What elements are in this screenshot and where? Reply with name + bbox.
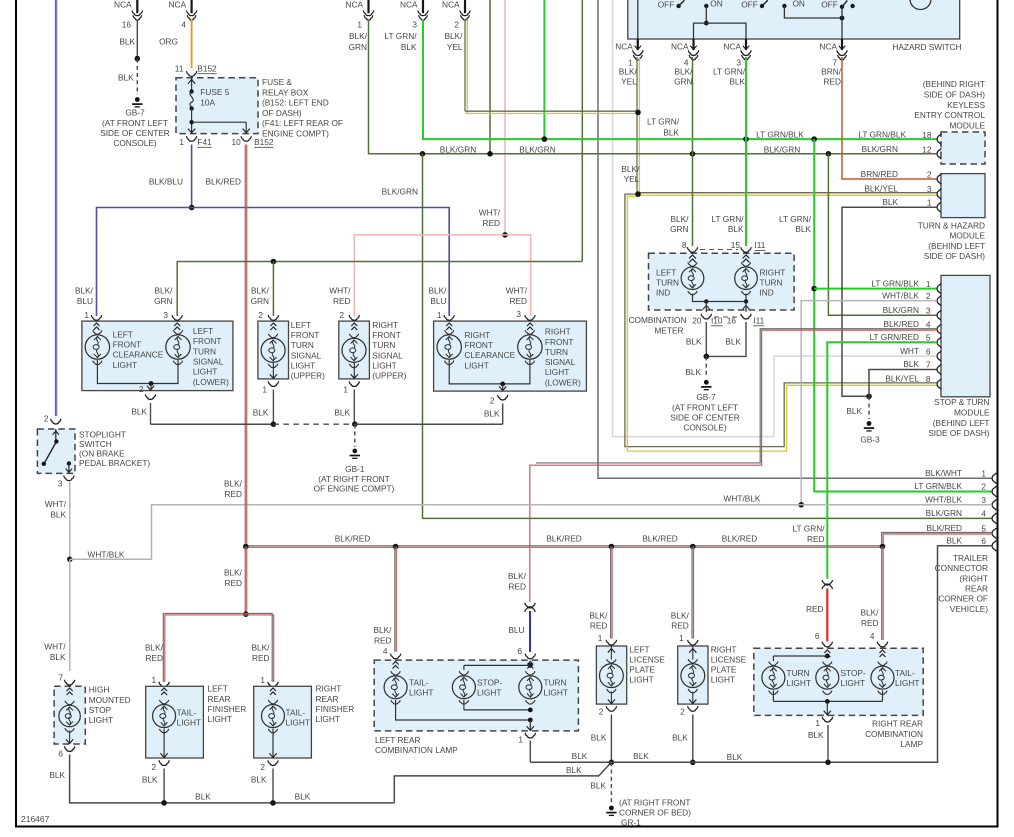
fuse and relay box <box>176 78 258 134</box>
stop and turn module box <box>941 275 990 396</box>
wire fuse input <box>191 78 193 91</box>
svg-text:LIGHT: LIGHT <box>316 714 340 724</box>
svg-text:6: 6 <box>517 646 522 656</box>
wire LT GRN/BLK to stop and turn pin 1 <box>814 288 937 290</box>
right rear finisher light box <box>254 686 312 758</box>
wire BLK right license plate light to rear bus <box>692 715 694 763</box>
svg-text:BLK: BLK <box>633 751 649 761</box>
connector left rear lamp pin 1 <box>525 733 535 738</box>
svg-text:BLK/: BLK/ <box>349 31 368 41</box>
svg-text:BLK/: BLK/ <box>429 286 448 296</box>
wire BLK/GRN feeder from top at x490 <box>489 0 491 154</box>
svg-text:BLK/GRN: BLK/GRN <box>519 144 555 154</box>
lamp RIGHT TURN IND <box>743 255 750 262</box>
junction dot WHT/BLK x801 <box>798 502 804 508</box>
svg-text:TAIL-: TAIL- <box>286 707 306 717</box>
svg-text:TURN & HAZARD: TURN & HAZARD <box>918 220 985 230</box>
svg-text:BLK: BLK <box>572 751 588 761</box>
svg-text:RIGHT: RIGHT <box>464 330 490 340</box>
wire high mounted stop exit <box>69 731 71 745</box>
connector trailer pin 2 <box>992 486 996 497</box>
svg-text:LIGHT: LIGHT <box>113 360 137 370</box>
svg-text:BLK: BLK <box>295 791 311 801</box>
svg-text:TURN: TURN <box>291 340 314 350</box>
svg-text:BLK/RED: BLK/RED <box>642 533 678 543</box>
svg-text:BLK: BLK <box>686 336 702 346</box>
connector left front lamp pin 2 <box>145 394 155 399</box>
svg-text:RELAY BOX: RELAY BOX <box>262 87 309 97</box>
connector left front lamp pin 1 <box>91 315 101 320</box>
svg-text:BLK: BLK <box>685 367 701 377</box>
svg-text:LT GRN/: LT GRN/ <box>385 31 418 41</box>
svg-text:OFF: OFF <box>658 0 675 10</box>
svg-text:2: 2 <box>151 762 156 772</box>
arrow exit left rear lamp pin 1 <box>529 720 531 731</box>
svg-text:GRN: GRN <box>154 296 172 306</box>
svg-text:YEL: YEL <box>624 174 640 184</box>
wire NCA pin 16 stub <box>136 0 138 13</box>
arrow meter exit pin 20 <box>705 302 707 313</box>
svg-text:(BEHIND LEFT: (BEHIND LEFT <box>933 418 990 428</box>
svg-text:BLK: BLK <box>727 752 743 762</box>
wire BLK left rear finisher light to bottom bus <box>163 769 165 803</box>
svg-text:RED: RED <box>590 621 608 631</box>
svg-text:ON: ON <box>710 0 722 9</box>
svg-text:MODULE: MODULE <box>950 121 986 131</box>
svg-text:TAIL-: TAIL- <box>895 668 915 678</box>
wire BLK/RED to right license plate light <box>691 547 693 639</box>
wire LT GRN/BLK NCA 3 to keyless module pin 18 <box>423 20 937 140</box>
junction dot BLK/RED finisher split <box>243 611 249 617</box>
wire BLK/GRN down to stop and turn pin 3 <box>828 154 937 315</box>
svg-text:COMBINATION: COMBINATION <box>865 729 923 739</box>
svg-text:BLK: BLK <box>903 359 919 369</box>
connector stoplight switch pin 3 <box>64 476 74 481</box>
lamp RIGHT FRONT TURN SIGNAL LIGHT LOWER <box>527 323 533 330</box>
svg-text:MODULE: MODULE <box>954 407 990 417</box>
connector right license plate light pin 2 <box>688 706 698 711</box>
wire LT GRN/BLK feeder from top at x544 <box>543 0 545 139</box>
svg-text:GRN: GRN <box>674 77 692 87</box>
svg-text:BLK/: BLK/ <box>619 67 638 77</box>
junction dot ground bus x273 <box>271 421 277 427</box>
svg-text:1: 1 <box>815 718 820 728</box>
lamp right rear TAIL-LIGHT <box>880 650 886 657</box>
turn and hazard module box <box>941 174 985 218</box>
wire right rear lamp bottom bus <box>772 691 774 702</box>
svg-text:BLK/: BLK/ <box>861 608 880 618</box>
junction dot BLK/RED bus <box>243 544 249 550</box>
svg-text:TURN: TURN <box>760 278 783 288</box>
wire BLK/WHT from top to trailer pin 1 <box>598 0 992 478</box>
svg-text:WHT/: WHT/ <box>329 286 351 296</box>
svg-text:WHT/BLK: WHT/BLK <box>88 549 125 559</box>
svg-text:RED: RED <box>508 582 526 592</box>
connector keyless pin 12 <box>937 148 941 159</box>
svg-text:WHT/: WHT/ <box>479 208 501 218</box>
wire BLU to left rear lamp pin 6 <box>529 611 531 652</box>
wire BLK/RED stop-turn pin 4 to turn light feed <box>530 330 937 602</box>
left front clearance and turn signal lamp box <box>82 321 233 391</box>
svg-text:10A: 10A <box>200 97 215 107</box>
junction dot meter lamp bus <box>704 299 708 303</box>
svg-text:WHT/BLK: WHT/BLK <box>724 493 761 503</box>
svg-text:FINISHER: FINISHER <box>208 704 247 714</box>
svg-text:RED: RED <box>224 489 242 499</box>
junction dot BLK/GRN x828 <box>826 151 832 157</box>
svg-text:NCA: NCA <box>114 0 132 10</box>
lamp left rear STOP-LIGHT <box>452 676 475 699</box>
svg-text:SIGNAL: SIGNAL <box>193 356 224 366</box>
svg-text:(ON BRAKE: (ON BRAKE <box>79 449 125 459</box>
wire WHT from top to stop and turn module pin 6 <box>613 0 938 437</box>
svg-text:BLK: BLK <box>728 224 744 234</box>
svg-text:BLK/: BLK/ <box>445 31 464 41</box>
svg-text:NCA: NCA <box>169 0 187 10</box>
wire NCA pin 3 stub <box>422 0 424 13</box>
wire WHT/RED feeder junction <box>502 232 508 238</box>
svg-text:RED: RED <box>482 218 500 228</box>
svg-text:WHT/: WHT/ <box>44 642 66 652</box>
svg-text:3: 3 <box>926 306 931 316</box>
connector stop-turn pin 2 <box>937 295 941 306</box>
svg-text:YEL: YEL <box>447 42 463 52</box>
svg-text:2: 2 <box>981 482 986 492</box>
lamp right rear TURN LIGHT <box>762 666 785 689</box>
svg-text:GB-7: GB-7 <box>125 108 145 118</box>
svg-text:1: 1 <box>84 310 89 320</box>
wire WHT/BLK stop-turn pin 2 <box>801 301 937 505</box>
svg-text:OFF: OFF <box>821 0 838 10</box>
svg-text:BLU: BLU <box>430 296 446 306</box>
lamp RIGHT FRONT CLEARANCE LIGHT <box>446 323 452 330</box>
hazard switch box <box>628 0 960 39</box>
svg-text:RED: RED <box>224 578 242 588</box>
svg-text:LIGHT: LIGHT <box>291 360 315 370</box>
wire BLK/GRN front turn signals to top feeder <box>177 262 582 317</box>
svg-text:STOPLIGHT: STOPLIGHT <box>79 429 126 439</box>
wire BLK turn-hazard pin 1 to stop-turn pin 7 and ground GB-3 <box>842 207 937 396</box>
svg-text:FRONT: FRONT <box>545 337 574 347</box>
svg-text:LEFT: LEFT <box>656 267 676 277</box>
wire left rear lamp bottom bus <box>463 700 465 710</box>
junction dot BLK/RED bus <box>393 544 399 550</box>
svg-text:BLK: BLK <box>50 652 66 662</box>
hazard switch spare contact dot <box>850 4 854 8</box>
svg-text:11: 11 <box>175 63 184 73</box>
svg-text:16: 16 <box>122 20 132 30</box>
svg-text:1: 1 <box>598 633 603 643</box>
svg-text:GB-1: GB-1 <box>345 464 365 474</box>
junction dot BLK/BLU <box>189 205 195 211</box>
svg-text:2: 2 <box>680 707 685 717</box>
svg-text:RED: RED <box>806 604 824 614</box>
svg-text:IND: IND <box>760 288 774 298</box>
wire BLK/RED fuse B152-10 down to rear light bus <box>244 145 246 547</box>
wire BLK/RED to rear finisher lights <box>244 547 246 614</box>
wire BLK/RED trailer to right rear lamp pin 4 <box>881 547 883 641</box>
lamp left license plate light <box>610 646 612 660</box>
wire BLK stop-turn pin 7 <box>869 370 937 397</box>
svg-text:BLK/: BLK/ <box>671 610 690 620</box>
svg-text:BLK/RED: BLK/RED <box>926 523 962 533</box>
svg-text:BLK: BLK <box>401 42 417 52</box>
svg-text:PLATE: PLATE <box>629 665 655 675</box>
svg-text:BLK: BLK <box>195 791 211 801</box>
svg-text:LT GRN/BLK: LT GRN/BLK <box>914 481 962 491</box>
svg-text:RED: RED <box>333 296 351 306</box>
wire right front lamps internal bus <box>449 360 530 384</box>
wire right rear lamp pin 6 internal <box>825 654 830 659</box>
wire BLK/GRN down to trailer pin 4 <box>423 154 993 519</box>
svg-text:BLK/GRN: BLK/GRN <box>883 305 919 315</box>
svg-text:2: 2 <box>339 310 344 320</box>
svg-text:(RIGHT: (RIGHT <box>959 573 988 583</box>
connector B152 pin 10 <box>241 136 251 141</box>
svg-text:RED: RED <box>374 636 392 646</box>
svg-text:BLK/: BLK/ <box>671 214 690 224</box>
svg-text:BLK/BLU: BLK/BLU <box>149 177 183 187</box>
svg-text:SIDE OF DASH): SIDE OF DASH) <box>924 89 986 99</box>
connector right rear finisher light pin 1 <box>268 682 278 687</box>
wire BLK dashed ground bus <box>273 423 354 425</box>
svg-text:7: 7 <box>58 673 63 683</box>
svg-text:BLK: BLK <box>131 407 147 417</box>
svg-text:BLK: BLK <box>142 774 158 784</box>
svg-text:LT GRN/: LT GRN/ <box>712 214 745 224</box>
arrow exit right front lamp pin 2 <box>499 386 506 390</box>
svg-text:BLK: BLK <box>253 408 269 418</box>
svg-text:BLK/RED: BLK/RED <box>722 533 758 543</box>
svg-text:FRONT: FRONT <box>464 340 493 350</box>
connector keyless pin 18 <box>937 134 941 145</box>
wire BLK meter pin 16 to junction <box>706 322 746 356</box>
svg-text:STOP-: STOP- <box>841 668 866 678</box>
svg-text:(BEHIND RIGHT: (BEHIND RIGHT <box>923 79 985 89</box>
connector row dashes meter top <box>700 249 738 251</box>
connector trailer pin 6 <box>992 540 996 551</box>
junction dot LT GRN/BLK x814 <box>811 136 817 142</box>
svg-text:OF ENGINE COMPT): OF ENGINE COMPT) <box>314 484 395 494</box>
svg-text:18: 18 <box>922 130 932 140</box>
wire BLK right rear lamp to bus <box>827 725 829 762</box>
svg-text:(UPPER): (UPPER) <box>291 371 325 381</box>
svg-text:LT GRN/: LT GRN/ <box>793 524 826 534</box>
svg-text:HIGH: HIGH <box>89 685 110 695</box>
svg-text:RIGHT: RIGHT <box>760 267 786 277</box>
svg-text:BLK: BLK <box>484 409 500 419</box>
svg-text:BLK/: BLK/ <box>252 643 271 653</box>
connector meter pin 16 I11 <box>741 314 751 319</box>
svg-text:3: 3 <box>412 20 417 30</box>
lamp right rear finisher light TAIL-LIGHT <box>270 688 276 695</box>
svg-text:COMBINATION: COMBINATION <box>629 315 687 325</box>
wire left rear finisher light to pin 2 <box>163 729 165 759</box>
wire LT GRN/BLK hazard pin 3 to combination meter pin 15 <box>745 57 747 246</box>
svg-text:SIDE OF CENTER: SIDE OF CENTER <box>100 128 170 138</box>
svg-text:(B152: LEFT END: (B152: LEFT END <box>262 98 329 108</box>
svg-text:LT GRN/: LT GRN/ <box>647 117 680 127</box>
lamp RIGHT FRONT TURN SIGNAL LIGHT UPPER <box>351 323 357 330</box>
svg-text:GB-3: GB-3 <box>860 435 880 445</box>
svg-text:(AT FRONT LEFT: (AT FRONT LEFT <box>672 402 738 412</box>
svg-text:BLK: BLK <box>566 765 582 775</box>
svg-text:I11: I11 <box>754 240 765 250</box>
wire BLK/YEL hazard pin 1 to turn-hazard module pin 3 and stop-turn pin 8 <box>625 57 937 447</box>
svg-text:RED: RED <box>252 653 270 663</box>
svg-text:LT GRN/RED: LT GRN/RED <box>870 332 919 342</box>
svg-text:FUSE &: FUSE & <box>262 77 292 87</box>
svg-text:LT GRN/BLK: LT GRN/BLK <box>871 278 919 288</box>
connector left front lamp pin 3 <box>172 315 182 320</box>
svg-text:BLK: BLK <box>251 774 267 784</box>
svg-text:BRN/: BRN/ <box>821 67 842 77</box>
wire BRN/RED hazard pin 7 to turn-hazard module pin 2 <box>842 57 937 179</box>
svg-text:CONSOLE): CONSOLE) <box>113 138 157 148</box>
svg-text:LT GRN/: LT GRN/ <box>713 67 746 77</box>
svg-text:F41: F41 <box>197 137 212 147</box>
junction dot BLK/RED bus <box>880 544 886 550</box>
svg-text:B152: B152 <box>254 137 274 147</box>
wire BLK dashed to GB-7 <box>136 59 138 95</box>
svg-text:BLK: BLK <box>49 770 65 780</box>
svg-text:NCA: NCA <box>615 42 633 52</box>
lamp LEFT FRONT CLEARANCE LIGHT <box>94 323 100 330</box>
svg-text:REAR: REAR <box>208 694 231 704</box>
inline connector LT GRN/RED to RED <box>822 580 832 585</box>
svg-text:LIGHT: LIGHT <box>544 688 568 698</box>
svg-text:8: 8 <box>682 240 687 250</box>
wire BLK/BLU fuse F41-1 to front clearance lights <box>191 145 193 208</box>
svg-text:TURN: TURN <box>656 278 679 288</box>
svg-text:LIGHT: LIGHT <box>787 678 811 688</box>
wire WHT/BLK to high mounted stop light <box>69 559 71 671</box>
svg-text:BLK: BLK <box>663 128 679 138</box>
svg-text:ENTRY CONTROL: ENTRY CONTROL <box>914 110 985 120</box>
wire left front lamps internal bus <box>97 360 178 384</box>
svg-text:10: 10 <box>231 137 241 147</box>
wire WHT/RED to front turn signal upper and lower <box>354 235 530 316</box>
ground GB-3 <box>867 421 872 426</box>
svg-text:LEFT: LEFT <box>113 329 133 339</box>
svg-text:RIGHT: RIGHT <box>711 644 737 654</box>
fuse F5 10A element <box>189 89 193 93</box>
connector NCA pin 16 <box>132 11 142 16</box>
wire BLK high mounted stop to bottom bus <box>70 755 395 803</box>
wire NCA pin 4 stub <box>191 0 193 13</box>
svg-text:TURN: TURN <box>545 347 568 357</box>
connector NCA pin 1 <box>363 11 373 16</box>
svg-text:LT GRN/: LT GRN/ <box>779 214 812 224</box>
svg-text:CONSOLE): CONSOLE) <box>683 423 727 433</box>
left rear finisher light box <box>146 686 204 758</box>
svg-text:GR-1: GR-1 <box>621 817 641 827</box>
lamp left rear TURN LIGHT <box>527 662 533 669</box>
ground GR-1 <box>609 806 614 811</box>
hazard switch wire ON2 to pin 7 <box>784 6 842 18</box>
svg-text:COMBINATION LAMP: COMBINATION LAMP <box>375 745 458 755</box>
connector turn-hazard pin 2 <box>937 174 941 185</box>
svg-text:BLK/: BLK/ <box>224 479 243 489</box>
connector high mounted stop pin 7 <box>64 680 74 685</box>
connector right front lamp pin 2 <box>498 395 508 400</box>
svg-text:TURN: TURN <box>193 346 216 356</box>
junction dot BLK/RED bus <box>609 544 615 550</box>
svg-text:RED: RED <box>671 621 689 631</box>
wire BLK gray partner of stop-turn pin 4 <box>536 329 937 463</box>
svg-text:TRAILER: TRAILER <box>953 553 988 563</box>
junction dot bottom bus <box>161 800 167 806</box>
svg-text:WHT/: WHT/ <box>45 499 67 509</box>
svg-text:3: 3 <box>163 310 168 320</box>
svg-text:LT GRN/BLK: LT GRN/BLK <box>858 129 906 139</box>
svg-text:6: 6 <box>981 536 986 546</box>
connector stop-turn pin 1 <box>937 283 941 294</box>
svg-text:BLK/: BLK/ <box>224 568 243 578</box>
combination meter box <box>649 253 795 310</box>
svg-text:LIGHT: LIGHT <box>208 714 232 724</box>
svg-text:12: 12 <box>922 145 932 155</box>
wire NCA pin 2 stub <box>464 0 466 13</box>
svg-text:1: 1 <box>981 468 986 478</box>
svg-text:GRN: GRN <box>670 224 688 234</box>
wire BLK meter pin 20 to ground GB-7 <box>705 322 707 356</box>
connector stop-turn pin 8 <box>937 379 941 390</box>
junction dot BLK x869 y396 <box>866 394 872 400</box>
svg-text:STOP: STOP <box>89 705 112 715</box>
svg-text:3: 3 <box>981 495 986 505</box>
svg-text:RIGHT REAR: RIGHT REAR <box>872 719 923 729</box>
svg-text:LIGHT: LIGHT <box>629 675 653 685</box>
right front turn signal upper box <box>339 321 370 379</box>
junction dot rear bus <box>609 760 615 766</box>
wire RED to right rear lamp pin 6 <box>826 589 828 642</box>
wire ORG to fuse box <box>191 20 193 69</box>
arrow exit right rear lamp pin 1 <box>826 701 828 715</box>
svg-text:FRONT: FRONT <box>113 339 142 349</box>
wire BLK right rear finisher light to bottom bus <box>272 769 274 803</box>
svg-text:CORNER OF BED): CORNER OF BED) <box>619 807 691 817</box>
junction dot ground bus x355 <box>352 421 358 427</box>
svg-text:(LOWER): (LOWER) <box>545 377 581 387</box>
svg-text:15: 15 <box>731 240 741 250</box>
wire BLK front ground bus <box>151 423 274 425</box>
svg-text:5: 5 <box>981 523 986 533</box>
ground GB-7 center console <box>704 380 709 385</box>
wire BLK left front turn upper to ground bus <box>272 390 274 425</box>
wire BLK dashed to ground GB-1 <box>354 424 356 447</box>
svg-text:NCA: NCA <box>723 42 741 52</box>
junction dot rear bus x828 <box>825 760 831 766</box>
svg-text:GRN: GRN <box>251 296 269 306</box>
svg-text:TURN: TURN <box>787 668 810 678</box>
svg-text:ORG: ORG <box>159 37 178 47</box>
svg-text:4: 4 <box>981 508 986 518</box>
stoplight switch box <box>37 429 75 473</box>
svg-text:TAIL-: TAIL- <box>409 678 429 688</box>
svg-text:LIGHT: LIGHT <box>409 688 433 698</box>
svg-text:SWITCH: SWITCH <box>79 439 112 449</box>
svg-text:2: 2 <box>258 310 263 320</box>
right front clearance and turn signal lamp box <box>434 321 587 391</box>
wire BLK/RED bus horizontal <box>245 545 882 547</box>
junction dot BLK/GRN x422 <box>420 151 426 157</box>
svg-text:BLK/RED: BLK/RED <box>205 177 241 187</box>
svg-text:LIGHT: LIGHT <box>193 367 217 377</box>
junction dot WHT/BLK x70 <box>67 557 73 563</box>
svg-text:1: 1 <box>357 20 362 30</box>
svg-text:BLK: BLK <box>118 73 134 83</box>
